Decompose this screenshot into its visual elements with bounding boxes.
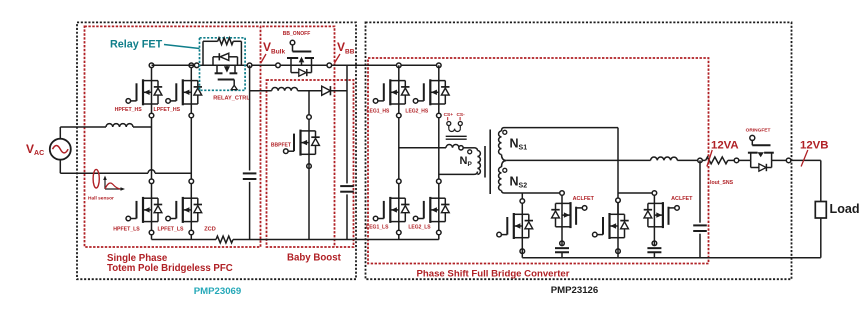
svg-text:Load: Load xyxy=(830,202,860,216)
svg-text:CS+: CS+ xyxy=(444,112,454,118)
svg-text:LEG1_LS: LEG1_LS xyxy=(366,225,389,231)
svg-text:Hall sensor: Hall sensor xyxy=(88,195,114,201)
svg-text:RELAY_CTRL: RELAY_CTRL xyxy=(213,95,250,101)
svg-text:Totem Pole Bridgeless PFC: Totem Pole Bridgeless PFC xyxy=(107,263,233,274)
svg-text:Relay FET: Relay FET xyxy=(110,39,163,51)
svg-text:LPFET_HS: LPFET_HS xyxy=(154,107,181,113)
svg-text:12VA: 12VA xyxy=(711,139,739,151)
svg-text:PMP23126: PMP23126 xyxy=(551,285,598,296)
svg-text:HPFET_HS: HPFET_HS xyxy=(115,107,143,113)
svg-text:Phase Shift Full Bridge Conver: Phase Shift Full Bridge Converter xyxy=(417,268,570,279)
svg-text:PMP23069: PMP23069 xyxy=(194,286,241,297)
svg-text:HPFET_LS: HPFET_LS xyxy=(113,227,140,233)
svg-text:Iout_SNS: Iout_SNS xyxy=(710,180,734,186)
svg-text:ORINGFET: ORINGFET xyxy=(746,127,771,133)
svg-text:Baby Boost: Baby Boost xyxy=(287,253,342,264)
svg-text:LEG1_HS: LEG1_HS xyxy=(367,109,390,115)
svg-text:CS-: CS- xyxy=(456,112,465,118)
svg-text:LPFET_LS: LPFET_LS xyxy=(158,227,184,233)
svg-text:12VB: 12VB xyxy=(800,139,829,151)
svg-text:ZCD: ZCD xyxy=(204,227,216,233)
svg-text:LEG2_HS: LEG2_HS xyxy=(405,109,428,115)
svg-text:BB_ONOFF: BB_ONOFF xyxy=(283,31,311,37)
svg-text:ACLFET: ACLFET xyxy=(573,196,595,202)
svg-text:BBPFET: BBPFET xyxy=(271,142,291,148)
svg-text:ACLFET: ACLFET xyxy=(671,196,693,202)
svg-text:LEG2_LS: LEG2_LS xyxy=(408,225,431,231)
